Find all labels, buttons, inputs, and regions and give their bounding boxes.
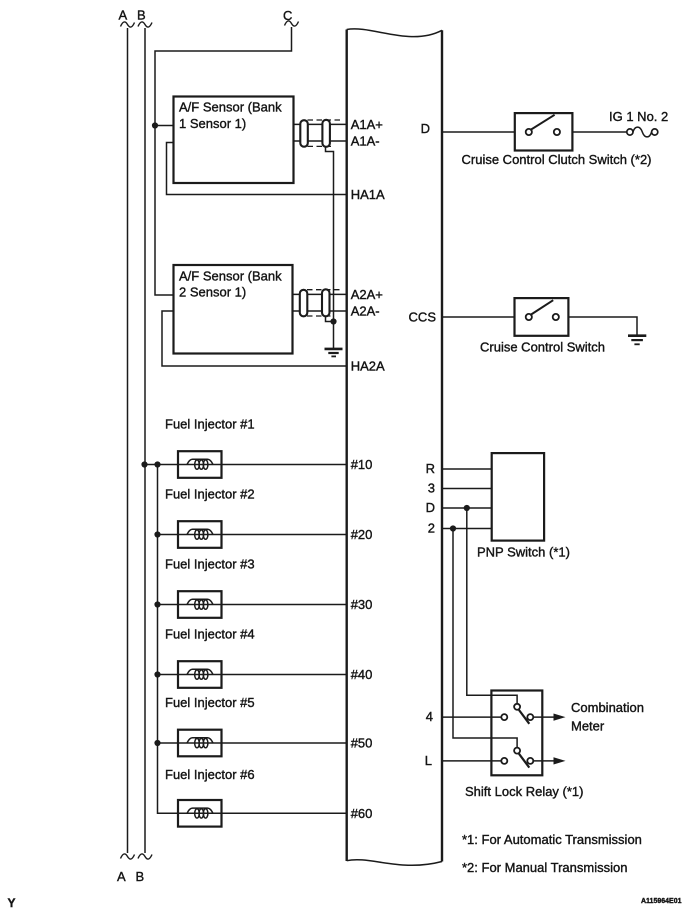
svg-text:Fuel Injector #1: Fuel Injector #1 — [165, 417, 255, 432]
svg-text:Meter: Meter — [571, 719, 605, 734]
svg-text:CCS: CCS — [409, 310, 437, 325]
svg-text:D: D — [426, 500, 435, 515]
svg-text:1 Sensor 1): 1 Sensor 1) — [179, 116, 246, 131]
svg-text:A/F Sensor (Bank: A/F Sensor (Bank — [179, 268, 282, 283]
svg-text:Cruise Control Clutch Switch (: Cruise Control Clutch Switch (*2) — [462, 152, 652, 167]
svg-text:Fuel Injector #5: Fuel Injector #5 — [165, 695, 255, 710]
svg-text:A1A+: A1A+ — [351, 117, 383, 132]
svg-text:A115964E01: A115964E01 — [641, 898, 682, 905]
svg-text:#30: #30 — [351, 597, 373, 612]
svg-text:R: R — [426, 461, 435, 476]
svg-text:#40: #40 — [351, 667, 373, 682]
svg-text:HA1A: HA1A — [351, 187, 385, 202]
svg-text:Cruise Control Switch: Cruise Control Switch — [480, 340, 605, 355]
svg-text:A2A+: A2A+ — [351, 287, 383, 302]
svg-text:Fuel Injector #3: Fuel Injector #3 — [165, 557, 255, 572]
svg-text:B: B — [137, 7, 146, 22]
svg-text:A: A — [117, 869, 126, 884]
svg-text:IG 1 No. 2: IG 1 No. 2 — [609, 109, 668, 124]
svg-text:A/F Sensor (Bank: A/F Sensor (Bank — [179, 100, 282, 115]
svg-text:*2: For Manual Transmission: *2: For Manual Transmission — [462, 860, 627, 875]
svg-text:Y: Y — [8, 896, 16, 910]
svg-text:#60: #60 — [351, 806, 373, 821]
svg-text:A2A-: A2A- — [351, 304, 380, 319]
svg-text:#10: #10 — [351, 457, 373, 472]
svg-text:Fuel Injector #6: Fuel Injector #6 — [165, 767, 255, 782]
svg-text:2 Sensor 1): 2 Sensor 1) — [179, 285, 246, 300]
svg-text:4: 4 — [426, 709, 433, 724]
svg-text:L: L — [425, 753, 432, 768]
svg-text:Fuel Injector #4: Fuel Injector #4 — [165, 627, 255, 642]
svg-text:2: 2 — [428, 521, 435, 536]
svg-text:#50: #50 — [351, 736, 373, 751]
svg-text:C: C — [283, 8, 292, 23]
svg-text:#20: #20 — [351, 527, 373, 542]
svg-text:3: 3 — [428, 481, 435, 496]
svg-text:D: D — [421, 121, 430, 136]
svg-text:Fuel Injector #2: Fuel Injector #2 — [165, 487, 255, 502]
svg-text:A: A — [119, 7, 128, 22]
svg-text:A1A-: A1A- — [351, 134, 380, 149]
svg-text:Combination: Combination — [571, 700, 644, 715]
svg-text:Shift Lock Relay (*1): Shift Lock Relay (*1) — [465, 784, 584, 799]
svg-text:PNP Switch (*1): PNP Switch (*1) — [477, 544, 570, 559]
svg-text:HA2A: HA2A — [351, 359, 385, 374]
svg-text:B: B — [136, 869, 145, 884]
svg-text:*1: For Automatic Transmission: *1: For Automatic Transmission — [462, 832, 642, 847]
